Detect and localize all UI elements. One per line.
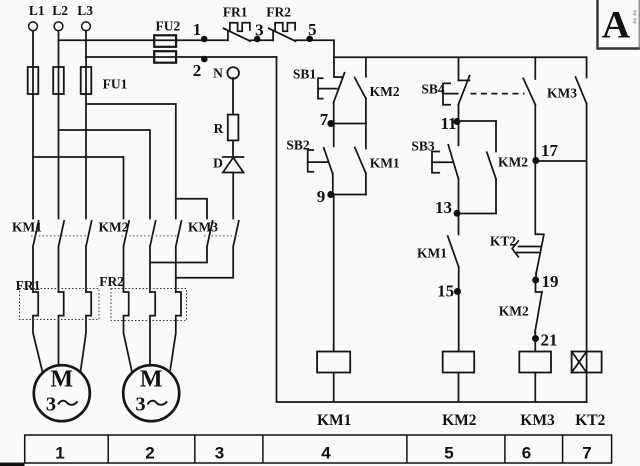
svg-text:KT2: KT2 xyxy=(575,412,605,429)
svg-text:M: M xyxy=(140,367,163,393)
svg-text:FR2: FR2 xyxy=(99,274,124,289)
svg-text:7: 7 xyxy=(582,444,591,463)
svg-text:KM2: KM2 xyxy=(442,412,477,429)
svg-text:FU1: FU1 xyxy=(103,77,128,92)
svg-text:KM2: KM2 xyxy=(99,220,129,235)
svg-text:KM3: KM3 xyxy=(547,86,577,101)
svg-text:17: 17 xyxy=(541,141,559,160)
svg-text:N: N xyxy=(213,66,223,81)
svg-text:13: 13 xyxy=(435,198,452,217)
svg-text:3: 3 xyxy=(135,394,145,416)
svg-text:SB3: SB3 xyxy=(411,139,435,154)
svg-text:M: M xyxy=(50,367,73,393)
svg-text:FR1: FR1 xyxy=(223,5,248,20)
svg-text:19: 19 xyxy=(542,272,559,291)
svg-text:3: 3 xyxy=(255,21,264,40)
svg-text:1: 1 xyxy=(55,444,64,463)
svg-text:FU2: FU2 xyxy=(156,19,181,34)
svg-text:KM2: KM2 xyxy=(370,84,400,99)
svg-text:2: 2 xyxy=(193,61,202,80)
svg-text:KM1: KM1 xyxy=(417,246,447,261)
svg-text:11: 11 xyxy=(440,114,456,133)
svg-text:5: 5 xyxy=(444,444,453,463)
svg-text:KM3: KM3 xyxy=(520,412,555,429)
svg-text:L1: L1 xyxy=(29,3,45,18)
svg-text:KM1: KM1 xyxy=(317,412,351,429)
svg-text:9: 9 xyxy=(317,187,326,206)
svg-text:R: R xyxy=(214,121,224,136)
svg-text:FR2: FR2 xyxy=(266,5,291,20)
svg-text:L3: L3 xyxy=(77,3,93,18)
svg-text:KT2: KT2 xyxy=(490,234,517,249)
svg-text:15: 15 xyxy=(437,282,454,301)
svg-text:4: 4 xyxy=(321,444,331,463)
svg-text:3: 3 xyxy=(215,444,224,463)
svg-text:KM1: KM1 xyxy=(370,156,400,171)
svg-text:L2: L2 xyxy=(52,3,68,18)
svg-text:1: 1 xyxy=(193,20,202,39)
svg-text:KM3: KM3 xyxy=(188,220,218,235)
svg-text:SB4: SB4 xyxy=(421,82,445,97)
svg-text:2: 2 xyxy=(145,444,154,463)
svg-text:FR1: FR1 xyxy=(16,278,41,293)
svg-text:7: 7 xyxy=(320,110,329,129)
svg-text:KM1: KM1 xyxy=(12,220,42,235)
svg-text:5: 5 xyxy=(308,20,317,39)
svg-text:D: D xyxy=(213,156,223,171)
svg-text:3: 3 xyxy=(46,394,56,416)
svg-text:SB2: SB2 xyxy=(286,138,310,153)
svg-text:KM2: KM2 xyxy=(499,304,529,319)
svg-text:21: 21 xyxy=(541,331,558,350)
svg-text:KM2: KM2 xyxy=(498,155,528,170)
svg-text:6: 6 xyxy=(522,444,531,463)
svg-text:A: A xyxy=(602,4,630,47)
svg-text:SB1: SB1 xyxy=(293,67,317,82)
